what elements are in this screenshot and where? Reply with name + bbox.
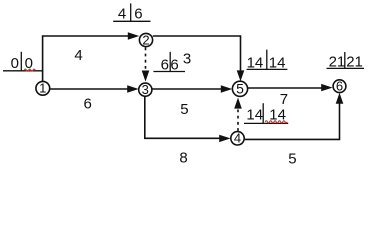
svg-text:1: 1	[39, 81, 46, 96]
svg-text:0: 0	[11, 55, 19, 72]
svg-text:14: 14	[246, 107, 263, 124]
svg-text:6: 6	[336, 78, 343, 93]
svg-text:3: 3	[142, 82, 149, 97]
svg-text:2: 2	[142, 32, 149, 47]
svg-text:6: 6	[134, 5, 142, 22]
svg-text:4: 4	[234, 131, 241, 146]
svg-text:5: 5	[236, 81, 244, 97]
svg-text:4: 4	[74, 47, 82, 64]
svg-text:5: 5	[180, 101, 188, 118]
svg-text:7: 7	[280, 91, 288, 108]
svg-text:3: 3	[183, 50, 191, 67]
svg-text:4: 4	[118, 5, 126, 22]
svg-text:6: 6	[84, 96, 92, 113]
svg-text:5: 5	[288, 150, 296, 167]
svg-text:8: 8	[179, 150, 187, 167]
